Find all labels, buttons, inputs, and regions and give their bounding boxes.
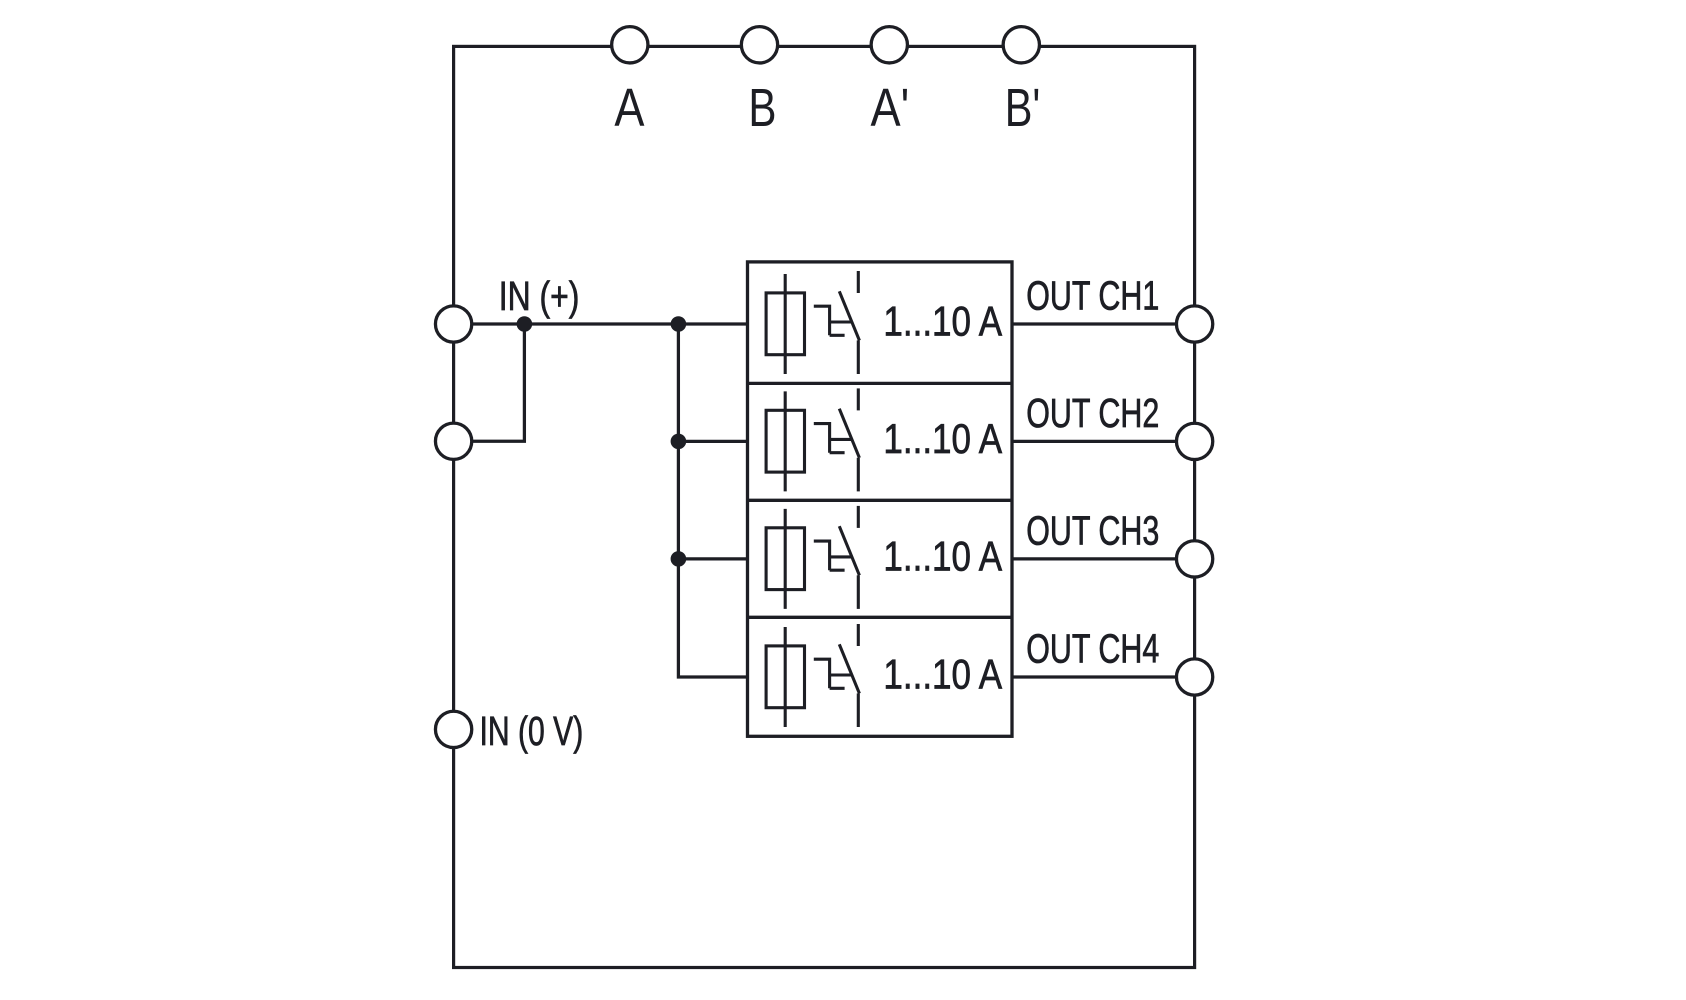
terminal A <box>612 27 648 63</box>
junction node bus / channel 3 <box>671 551 687 567</box>
switch S2 top stub <box>857 388 860 410</box>
svg-text:B': B' <box>1005 78 1041 139</box>
trip linkage channel 1 <box>814 306 852 335</box>
switch S3 top stub <box>857 506 860 528</box>
terminal IN second <box>435 423 471 459</box>
wire: IN (+) input to channel box <box>454 322 748 325</box>
wire: jog from IN (+) node down to second input terminal <box>454 324 525 441</box>
terminal OUT CH1 <box>1176 306 1212 342</box>
switch S3 blade <box>839 526 859 575</box>
terminal IN (0 V) <box>435 711 471 747</box>
channel block outline <box>748 262 1013 736</box>
switch S4 blade <box>839 644 859 693</box>
fuse F1 wire <box>784 274 787 374</box>
svg-text:OUT CH2: OUT CH2 <box>1026 390 1159 437</box>
fuse F2 <box>766 410 804 472</box>
wire: output channel 1 <box>1012 322 1195 325</box>
fuse F2 wire <box>784 391 787 491</box>
fuse F4 wire <box>784 627 787 727</box>
channel 4 symbols <box>766 624 859 727</box>
channel divider 2 <box>748 499 1013 502</box>
svg-text:IN (0 V): IN (0 V) <box>480 707 584 754</box>
wire: output channel 2 <box>1012 440 1195 443</box>
terminal OUT CH3 <box>1176 541 1212 577</box>
fuse F3 wire <box>784 509 787 609</box>
svg-text:OUT CH3: OUT CH3 <box>1026 507 1159 554</box>
terminal OUT CH2 <box>1176 423 1212 459</box>
svg-text:OUT CH4: OUT CH4 <box>1026 625 1159 672</box>
terminal B' <box>1003 27 1039 63</box>
wire: output channel 3 <box>1012 557 1195 560</box>
channel 2 symbols <box>766 388 859 491</box>
svg-text:1...10 A: 1...10 A <box>883 299 1002 346</box>
svg-text:B: B <box>748 78 776 138</box>
channel divider 1 <box>748 382 1013 385</box>
trip linkage channel 4 <box>814 659 852 688</box>
fuse F4 <box>766 646 804 708</box>
trip linkage channel 3 <box>814 541 852 570</box>
switch S1 top stub <box>857 271 860 293</box>
terminal IN (+) <box>435 306 471 342</box>
svg-text:OUT CH1: OUT CH1 <box>1026 272 1159 319</box>
channel 3 symbols <box>766 506 859 609</box>
switch S1 blade <box>839 291 859 340</box>
fuse F3 <box>766 528 804 590</box>
terminal A' <box>871 27 907 63</box>
switch S2 bottom wire <box>857 458 860 492</box>
switch S2 blade <box>839 409 859 458</box>
svg-text:1...10 A: 1...10 A <box>883 416 1002 463</box>
svg-text:A: A <box>614 77 645 138</box>
wire: branch to channel 3 <box>678 557 747 560</box>
switch S4 bottom wire <box>857 693 860 727</box>
terminal OUT CH4 <box>1176 659 1212 695</box>
svg-text:1...10 A: 1...10 A <box>883 652 1002 699</box>
terminal B <box>741 27 777 63</box>
wire: distribution bus vertical <box>678 324 747 677</box>
junction node at IN (+) <box>517 316 533 332</box>
outer enclosure rectangle <box>454 46 1195 967</box>
wire: branch to channel 2 <box>678 440 747 443</box>
svg-text:A': A' <box>871 77 910 138</box>
switch S4 top stub <box>857 624 860 646</box>
fuse F1 <box>766 293 804 355</box>
junction node bus / channel 1 <box>671 316 687 332</box>
wire: output channel 4 <box>1012 675 1195 678</box>
channel divider 3 <box>748 616 1013 619</box>
svg-text:IN (+): IN (+) <box>499 273 580 319</box>
switch S3 bottom wire <box>857 575 860 609</box>
svg-text:1...10 A: 1...10 A <box>883 534 1002 581</box>
switch S1 bottom wire <box>857 340 860 374</box>
trip linkage channel 2 <box>814 424 852 453</box>
junction node bus / channel 2 <box>671 434 687 450</box>
channel 1 symbols <box>766 271 859 374</box>
